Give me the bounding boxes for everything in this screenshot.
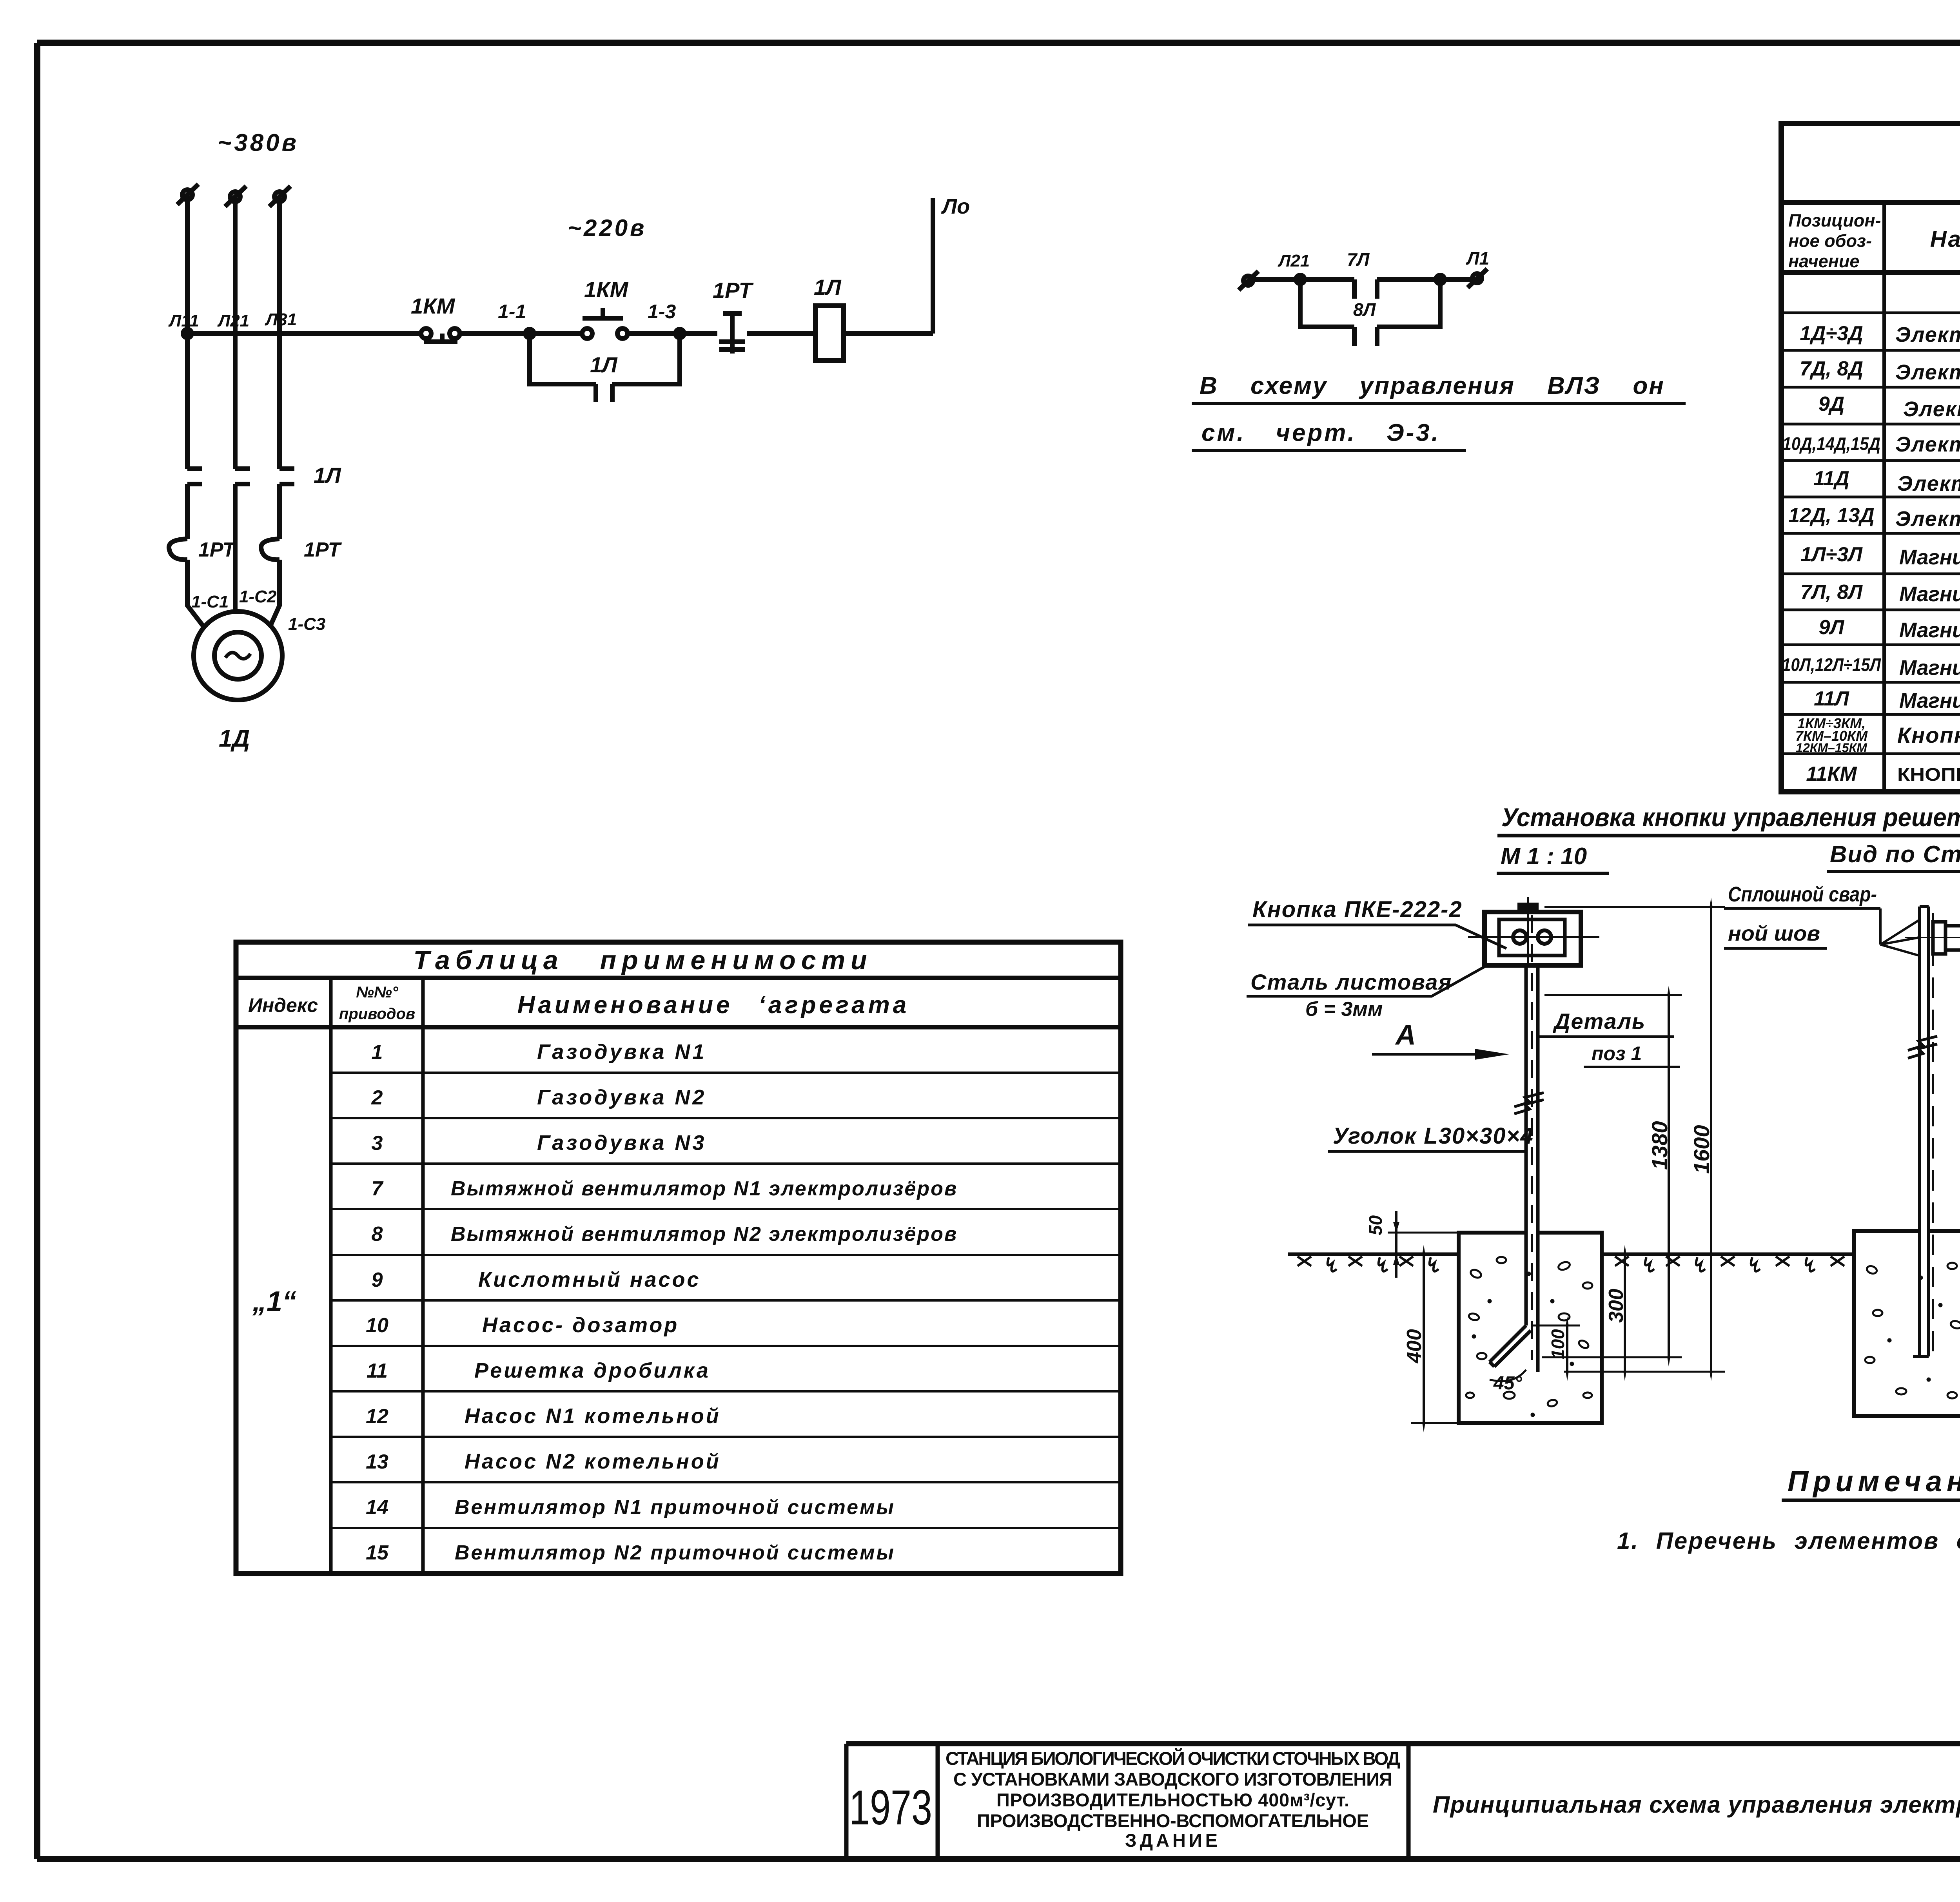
contact 1Л main phase L1: [187, 469, 202, 484]
svg-text:8Л: 8Л: [1353, 299, 1376, 320]
svg-text:Решетка дробилка: Решетка дробилка: [474, 1359, 710, 1382]
svg-text:ной шов: ной шов: [1728, 922, 1820, 945]
contact 1РТ thermal: [719, 314, 745, 354]
svg-text:б = 3мм: б = 3мм: [1305, 998, 1383, 1021]
svg-text:А: А: [1395, 1019, 1416, 1051]
svg-text:Магнитный пускатель: Магнитный пускатель: [1899, 656, 1960, 680]
svg-text:2: 2: [371, 1086, 383, 1109]
svg-text:Л11: Л11: [168, 311, 199, 330]
svg-text:Л21: Л21: [217, 311, 249, 330]
svg-text:50: 50: [1365, 1215, 1386, 1235]
wire parallel branch 8Л: [1300, 279, 1440, 327]
svg-text:М 1 : 10: М 1 : 10: [1501, 843, 1587, 869]
svg-text:начение: начение: [1788, 251, 1859, 271]
svg-text:Насос N1 котельной: Насос N1 котельной: [465, 1404, 721, 1428]
node phase L1 top disconnect: [182, 190, 192, 200]
svg-text:Электродвигатель: Электродвигатель: [1895, 507, 1960, 531]
svg-text:1600: 1600: [1689, 1125, 1714, 1174]
dim 400: [1411, 1422, 1459, 1424]
svg-text:„1“: „1“: [252, 1286, 296, 1317]
node right disconnect: [1472, 274, 1482, 283]
svg-text:Магнитный пускатель: Магнитный пускатель: [1899, 689, 1960, 713]
right view button side: [1905, 922, 1960, 954]
svg-text:Магнитный пускатель: Магнитный пускатель: [1899, 546, 1960, 569]
contact 7Л: [1354, 279, 1377, 299]
svg-text:10Л,12Л÷15Л: 10Л,12Л÷15Л: [1782, 655, 1881, 675]
svg-text:Л1: Л1: [1466, 248, 1489, 268]
svg-text:В схему управления ВЛЗ он: В схему управления ВЛЗ он: [1200, 372, 1665, 399]
svg-text:11Д: 11Д: [1813, 467, 1849, 490]
svg-text:1-С3: 1-С3: [288, 615, 325, 634]
svg-text:1-С2: 1-С2: [239, 587, 277, 606]
svg-text:11Л: 11Л: [1814, 687, 1849, 710]
svg-text:Электродвигатель: Электродвигатель: [1897, 472, 1960, 495]
svg-text:9: 9: [372, 1269, 383, 1291]
svg-text:8: 8: [372, 1223, 383, 1246]
node Л21: [1296, 275, 1305, 284]
dim 100 (embed): [1531, 1325, 1580, 1327]
svg-text:12Д, 13Д: 12Д, 13Д: [1788, 504, 1875, 527]
dim 1380: [1544, 994, 1682, 996]
svg-text:9Л: 9Л: [1819, 616, 1845, 639]
svg-text:Газодувка N3: Газодувка N3: [537, 1131, 706, 1155]
svg-text:Насос N2 котельной: Насос N2 котельной: [465, 1450, 721, 1473]
svg-text:№№°: №№°: [356, 984, 399, 1001]
svg-text:7Л: 7Л: [1347, 249, 1370, 270]
svg-text:СТАНЦИЯ БИОЛОГИЧЕСКОЙ ОЧИСТКИ: СТАНЦИЯ БИОЛОГИЧЕСКОЙ ОЧИСТКИ СТОЧНЫХ ВО…: [946, 1748, 1400, 1769]
svg-text:Газодувка N1: Газодувка N1: [537, 1040, 706, 1064]
applicability table grid: [236, 942, 1121, 1574]
svg-text:Уголок L30×30×4: Уголок L30×30×4: [1333, 1123, 1534, 1149]
svg-text:7Л, 8Л: 7Л, 8Л: [1800, 581, 1863, 604]
svg-text:1-С1: 1-С1: [191, 592, 229, 611]
svg-text:Вид по Стрелке А: Вид по Стрелке А: [1830, 841, 1960, 867]
svg-text:ПРОИЗВОДСТВЕННО-ВСПОМОГАТЕЛЬНО: ПРОИЗВОДСТВЕННО-ВСПОМОГАТЕЛЬНОЕ: [977, 1810, 1369, 1831]
svg-text:ное обоз-: ное обоз-: [1788, 231, 1872, 251]
button box (front view): [1468, 897, 1599, 965]
svg-text:1-3: 1-3: [648, 301, 676, 323]
svg-text:Деталь: Деталь: [1553, 1009, 1646, 1033]
svg-text:1Д: 1Д: [219, 725, 250, 752]
svg-text:Газодувка N2: Газодувка N2: [537, 1086, 706, 1109]
svg-text:Насос- дозатор: Насос- дозатор: [482, 1313, 679, 1337]
svg-text:приводов: приводов: [339, 1005, 415, 1023]
svg-text:400: 400: [1403, 1329, 1426, 1363]
svg-text:1Д÷3Д: 1Д÷3Д: [1800, 322, 1863, 345]
svg-text:КНОПКА .УПРАВЛЕНИЯ: КНОПКА .УПРАВЛЕНИЯ: [1897, 764, 1960, 785]
contact 1Л main phase L3: [279, 469, 294, 484]
svg-text:13: 13: [366, 1451, 388, 1473]
foundation block right: [1854, 1231, 1960, 1416]
svg-text:Таблица применимости: Таблица применимости: [413, 945, 872, 975]
concrete speckles left: [1466, 1257, 1592, 1416]
wire Ло riser: [931, 198, 935, 334]
45 degree arc: [1490, 1370, 1526, 1381]
svg-text:11: 11: [367, 1360, 388, 1382]
svg-text:100: 100: [1548, 1329, 1568, 1359]
svg-text:Наименование: Наименование: [1930, 227, 1960, 252]
svg-text:1Л÷3Л: 1Л÷3Л: [1800, 543, 1863, 566]
svg-text:С УСТАНОВКАМИ ЗАВОДСКОГО ИЗГОТ: С УСТАНОВКАМИ ЗАВОДСКОГО ИЗГОТОВЛЕНИЯ: [953, 1769, 1392, 1790]
wire phase L1: [187, 196, 203, 626]
svg-text:~380в: ~380в: [218, 129, 299, 156]
svg-text:3: 3: [372, 1132, 383, 1155]
svg-text:10: 10: [366, 1314, 388, 1337]
node phase L3 top disconnect: [274, 192, 285, 202]
wire aux line: [1250, 277, 1475, 282]
svg-text:1Л: 1Л: [814, 275, 842, 299]
svg-text:1380: 1380: [1647, 1121, 1672, 1170]
svg-text:~220в: ~220в: [568, 215, 646, 241]
svg-text:15: 15: [366, 1541, 389, 1564]
svg-text:300: 300: [1605, 1289, 1628, 1323]
wire parallel branch: [530, 334, 680, 384]
svg-text:Принципиальная схема управле: Принципиальная схема управления электрод…: [1433, 1791, 1960, 1818]
contact 1Л auxiliary: [596, 384, 612, 402]
svg-text:7: 7: [372, 1177, 384, 1200]
svg-text:Электродвигате: Электродвигате: [1895, 433, 1960, 456]
svg-text:Индекс: Индекс: [248, 994, 318, 1016]
node 1-3: [675, 329, 684, 338]
dim 50: [1388, 1232, 1459, 1234]
button 1КМ (start): [582, 328, 592, 339]
wire phase L2: [233, 198, 238, 612]
svg-text:Вытяжной вентилятор N2 элект: Вытяжной вентилятор N2 электролизёров: [451, 1223, 958, 1246]
svg-text:12КМ–15КМ: 12КМ–15КМ: [1796, 741, 1867, 755]
contact 1Л main phase L2: [235, 469, 250, 484]
svg-text:Вентилятор N2 приточной систе: Вентилятор N2 приточной системы: [455, 1541, 895, 1564]
dim 1600: [1544, 906, 1725, 908]
svg-text:см. черт. Э-3.: см. черт. Э-3.: [1201, 419, 1440, 446]
motor 1Д: [194, 611, 282, 700]
svg-text:Электродвигатель: Электродвигатель: [1895, 361, 1960, 384]
wire phase L3: [271, 198, 279, 625]
svg-text:Электродвигатель: Электродвигатель: [1903, 397, 1960, 421]
node Л1: [1436, 275, 1445, 284]
ground line left: [1288, 1253, 1960, 1256]
wire control bus: [187, 331, 933, 336]
svg-text:Ло: Ло: [941, 195, 970, 218]
svg-text:Л21: Л21: [1278, 251, 1310, 270]
svg-text:Кнопка управления: Кнопка управления: [1897, 723, 1960, 747]
node 1-1: [525, 329, 534, 338]
svg-text:1973: 1973: [849, 1781, 932, 1835]
post bottom bend 45: [1490, 1325, 1531, 1367]
svg-text:12: 12: [366, 1405, 388, 1428]
svg-text:1Л: 1Л: [314, 463, 341, 488]
right view post: [1908, 907, 1937, 1362]
node phase L2 top disconnect: [230, 192, 240, 202]
concrete speckles right: [1865, 1263, 1960, 1400]
svg-text:45°: 45°: [1493, 1373, 1522, 1394]
contact 8Л: [1354, 327, 1377, 346]
svg-text:Кнопка ПКЕ-222-2: Кнопка ПКЕ-222-2: [1252, 897, 1463, 922]
svg-text:Позицион-: Позицион-: [1788, 210, 1881, 230]
svg-text:1РТ: 1РТ: [304, 539, 342, 561]
post (front view): [1514, 915, 1544, 1372]
svg-text:1КМ: 1КМ: [584, 277, 629, 302]
svg-text:ЗДАНИЕ: ЗДАНИЕ: [1125, 1830, 1221, 1851]
heater 1РТ phase L3: [261, 539, 279, 560]
svg-text:Вентилятор N1 приточной сист: Вентилятор N1 приточной системы: [455, 1496, 895, 1519]
heater 1РТ phase L1: [169, 539, 187, 560]
ground hatching: [1298, 1257, 1960, 1271]
svg-text:поз 1: поз 1: [1592, 1043, 1642, 1064]
coil 1Л: [815, 306, 844, 361]
title block grid: [846, 1744, 1960, 1859]
svg-text:1РТ: 1РТ: [198, 539, 237, 561]
svg-text:Л31: Л31: [265, 310, 297, 329]
svg-text:Установка кнопки управления ре: Установка кнопки управления решетки-дроб…: [1501, 803, 1960, 832]
svg-text:Сплошной свар-: Сплошной свар-: [1728, 883, 1877, 906]
svg-text:Магнитный пускатель: Магнитный пускатель: [1899, 618, 1960, 642]
svg-text:Электродвигатель: Электродвигатель: [1895, 323, 1960, 346]
dim 300: [1624, 1254, 1626, 1372]
svg-text:Кислотный насос: Кислотный насос: [478, 1268, 701, 1291]
foundation block left: [1459, 1233, 1602, 1423]
svg-text:1РТ: 1РТ: [713, 278, 754, 303]
svg-text:1. Перечень элементов дан: 1. Перечень элементов дан общий на все а…: [1617, 1528, 1960, 1554]
contact 1КМ (stop button): [421, 328, 431, 339]
svg-text:11КМ: 11КМ: [1806, 763, 1857, 785]
svg-text:1Л: 1Л: [590, 352, 618, 377]
svg-text:1-1: 1-1: [498, 301, 526, 323]
svg-text:Вытяжной вентилятор N1 элект: Вытяжной вентилятор N1 электролизёров: [451, 1177, 958, 1200]
node left disconnect: [1243, 276, 1253, 285]
svg-text:Примечание: Примечание: [1788, 1465, 1960, 1498]
svg-text:Магнитный пускатель: Магнитный пускатель: [1899, 582, 1960, 606]
svg-text:ПРОИЗВОДИТЕЛЬНОСТЬЮ 400м³/сут.: ПРОИЗВОДИТЕЛЬНОСТЬЮ 400м³/сут.: [996, 1790, 1349, 1810]
svg-text:10Д,14Д,15Д: 10Д,14Д,15Д: [1782, 433, 1880, 454]
svg-text:1КМ: 1КМ: [411, 294, 456, 318]
svg-text:7Д, 8Д: 7Д, 8Д: [1800, 357, 1863, 380]
svg-text:14: 14: [366, 1496, 388, 1519]
break symbol: [1514, 1093, 1544, 1107]
svg-text:1: 1: [372, 1041, 383, 1064]
svg-text:9Д: 9Д: [1818, 393, 1844, 415]
svg-text:Наименование ‘агрегата: Наименование ‘агрегата: [517, 992, 909, 1019]
svg-text:Сталь листовая: Сталь листовая: [1250, 970, 1452, 994]
element list table grid: [1781, 123, 1960, 792]
